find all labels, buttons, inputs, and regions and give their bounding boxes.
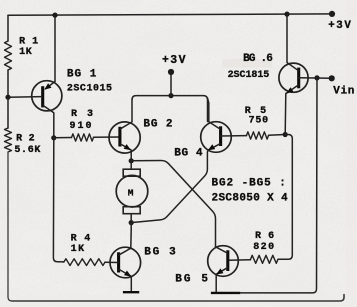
- svg-text:910: 910: [70, 121, 92, 132]
- wire BG1 emitter vertical: [54, 15, 56, 81]
- wire BG4 base to R5: [221, 135, 247, 137]
- motor M body: [116, 175, 148, 207]
- wire motor top stem: [130, 161, 132, 170]
- transistor BG2 collector lead: [121, 100, 133, 129]
- wire top +3V rail: [8, 14, 332, 15]
- node motor bottom junction: [129, 220, 134, 225]
- svg-text:+3V: +3V: [162, 54, 186, 67]
- wire R5 to junction: [269, 134, 286, 137]
- svg-text:1K: 1K: [19, 47, 32, 58]
- wire +3V center rail: [132, 96, 208, 122]
- transistor BG4 base bar: [219, 126, 222, 146]
- node top rail junction A: [52, 13, 57, 18]
- wire left rail mid: [7, 70, 9, 97]
- svg-text:R 2: R 2: [16, 134, 34, 145]
- transistor BG3 emitter lead: [119, 270, 131, 277]
- motor M bottom terminal: [123, 207, 140, 214]
- resistor R1: [5, 41, 12, 70]
- svg-text:R 6: R 6: [255, 231, 274, 242]
- node +3V top right terminal: [329, 11, 335, 17]
- transistor BG5 emitter lead: [216, 268, 227, 275]
- svg-text:R 1: R 1: [19, 37, 38, 48]
- svg-text:750: 750: [249, 116, 269, 127]
- resistor R4: [64, 259, 105, 266]
- wire BG2 emitter down: [130, 150, 132, 161]
- transistor BG3 circle: [110, 247, 141, 278]
- wire R3 left: [54, 137, 72, 139]
- wire BG3 emitter down: [130, 277, 132, 292]
- transistor BG6 collector lead: [287, 14, 298, 70]
- transistor BG3 base bar: [117, 252, 120, 272]
- node Vin terminal: [329, 75, 335, 81]
- wire BG4 emitter to motor bottom: [131, 150, 208, 222]
- wire R4 vertical: [53, 138, 63, 262]
- resistor R5: [247, 132, 269, 139]
- svg-text:1K: 1K: [71, 244, 85, 255]
- svg-text:Vin: Vin: [333, 85, 354, 97]
- svg-text:2SC1015: 2SC1015: [67, 84, 112, 95]
- wire R4 to BG3 base: [105, 261, 118, 263]
- wire BG1 base lead: [8, 96, 42, 99]
- wire left rail lower2: [8, 152, 12, 301]
- wire left rail upper: [7, 15, 9, 41]
- ground BG5: [211, 292, 240, 294]
- svg-text:R 4: R 4: [71, 234, 91, 245]
- transistor BG6 emitter arrow: [286, 87, 293, 93]
- svg-text:BG 5: BG 5: [175, 273, 208, 285]
- transistor BG4 collector lead: [209, 103, 220, 129]
- transistor BG2 emitter arrow: [124, 144, 131, 150]
- transistor BG6 emitter lead: [286, 85, 298, 93]
- node top rail junction B: [284, 12, 289, 17]
- wire R6 to BG5 base: [228, 259, 251, 262]
- svg-text:R 3: R 3: [71, 109, 93, 120]
- resistor R3: [72, 134, 94, 141]
- node R5 BG6 emitter junction: [283, 132, 288, 137]
- transistor BG2 base bar: [118, 127, 121, 147]
- wire +3V stem: [170, 73, 172, 96]
- svg-text:BG 4: BG 4: [174, 147, 203, 159]
- svg-text:BG 1: BG 1: [67, 68, 97, 80]
- transistor BG4 circle: [201, 122, 232, 153]
- transistor BG1 emitter arrow: [44, 83, 51, 90]
- wire BG2 emitter to BG5 collector: [131, 161, 215, 247]
- wire BG6 emitter down: [284, 93, 287, 134]
- transistor BG4 emitter lead: [208, 144, 220, 150]
- node R3 junction: [51, 135, 56, 140]
- svg-text:2SC1815: 2SC1815: [228, 70, 270, 81]
- node Vin junction: [314, 75, 319, 80]
- wire motor bottom to BG3 collector: [130, 223, 132, 230]
- node +3V center terminal: [168, 69, 174, 75]
- transistor BG5 circle: [208, 246, 239, 277]
- wire R3 to BG2 base: [94, 136, 120, 138]
- svg-text:5.6K: 5.6K: [14, 145, 40, 156]
- svg-text:BG 3: BG 3: [144, 246, 176, 258]
- svg-text:2SC8050 X 4: 2SC8050 X 4: [212, 192, 289, 204]
- transistor BG3 collector lead: [119, 230, 131, 255]
- ground BG3: [123, 291, 139, 293]
- wire bottom rail: [12, 295, 344, 302]
- svg-text:BG 2: BG 2: [143, 118, 172, 130]
- wire BG6 base to Vin: [299, 77, 332, 80]
- wire left rail lower1: [7, 97, 9, 128]
- svg-text:BG2 -BG5 :: BG2 -BG5 :: [212, 177, 286, 189]
- resistor R6: [251, 255, 279, 263]
- transistor BG1 circle: [32, 81, 62, 111]
- motor M top terminal: [123, 169, 140, 176]
- wire junction to R6 vertical: [278, 135, 292, 260]
- node +3V rail junction: [168, 93, 173, 98]
- wire BG5 emitter down: [215, 275, 217, 292]
- transistor BG1 collector lead: [43, 106, 54, 138]
- transistor BG5 base bar: [226, 250, 229, 271]
- transistor BG1 emitter lead: [46, 82, 56, 89]
- svg-text:+3V: +3V: [328, 20, 351, 32]
- node motor top junction: [129, 158, 134, 163]
- svg-text:BG .6: BG .6: [243, 53, 273, 65]
- wire BG4 collector to rail: [208, 98, 209, 103]
- transistor BG2 circle: [109, 122, 140, 153]
- wire motor bottom stem: [130, 214, 132, 223]
- transistor BG2 emitter lead: [121, 144, 131, 150]
- node BG1 base junction: [5, 95, 10, 100]
- transistor BG5 collector lead: [216, 247, 228, 253]
- transistor BG1 base bar: [41, 86, 44, 107]
- transistor BG6 circle: [279, 63, 308, 92]
- svg-text:820: 820: [253, 242, 274, 253]
- svg-text:M: M: [128, 187, 134, 198]
- transistor BG6 base bar: [297, 68, 300, 89]
- transistor BG5 emitter arrow: [216, 268, 223, 274]
- wire bottom to Vin vertical: [240, 78, 317, 293]
- resistor R2: [5, 128, 12, 152]
- transistor BG4 emitter arrow: [208, 144, 215, 150]
- transistor BG3 emitter arrow: [124, 271, 131, 277]
